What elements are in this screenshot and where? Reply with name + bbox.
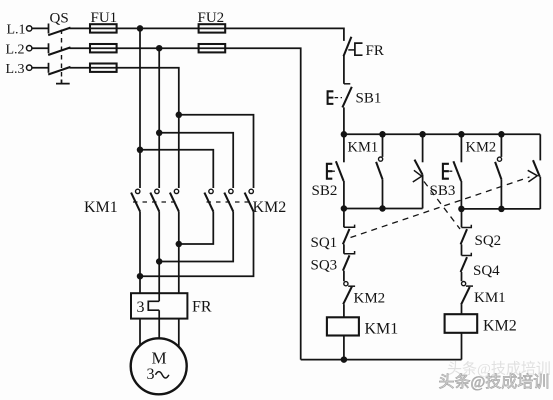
svg-text:KM1: KM1 [474, 290, 506, 306]
thermal contact FR tick [348, 49, 355, 51]
node cross dot B [156, 258, 163, 265]
linkage dashed SQ1 to NO [351, 177, 530, 238]
wire KM1 out C [178, 211, 180, 293]
wire KM1 out B [158, 211, 160, 293]
wire L2 QS to left return [70, 48, 301, 359]
interlock KM1 NC circle [462, 282, 466, 286]
aux contact KM1 circle [379, 157, 383, 161]
wire L3 to QS [32, 67, 49, 69]
start button SB3 link dash [449, 170, 453, 172]
motor M circle [131, 338, 187, 394]
switch QS pole 3 blade [48, 67, 70, 75]
switch QS pole 3 fixed tick [48, 63, 50, 73]
motor phase tilde [156, 372, 169, 378]
svg-text:3: 3 [147, 366, 155, 383]
wire SQ1-NO to lower bus [539, 177, 541, 209]
svg-text:L.3: L.3 [6, 62, 25, 77]
svg-text:KM1: KM1 [365, 321, 399, 338]
limit contact SQ1-NO upper wire [539, 134, 541, 160]
node branch B dot [156, 130, 163, 137]
start button SB2 actuator E [327, 164, 332, 179]
svg-text:M: M [152, 349, 167, 368]
wire L1 to QS [32, 27, 49, 29]
wire phase A vertical [139, 28, 141, 188]
wire KM2 coil to bottom bus [461, 333, 463, 360]
terminal L2 [27, 46, 32, 51]
wire phase B vertical [158, 48, 160, 188]
linkage arrow at SQ1-NO [528, 170, 538, 182]
contactor KM2 main contact 2 [224, 189, 233, 211]
wire branch B to KM2 [159, 133, 233, 188]
fuse FU1 pole 3 [90, 64, 117, 72]
interlock KM2 NC circle [344, 282, 348, 286]
svg-text:头条@技成培训: 头条@技成培训 [439, 373, 550, 391]
start button SB3 actuator E [443, 164, 449, 179]
wire SB1 to bus [343, 107, 345, 134]
switch QS linkage handle [56, 80, 70, 84]
svg-text:FR: FR [366, 43, 384, 59]
limit switch SQ3 tick [344, 251, 355, 254]
node branch A dot [137, 147, 144, 154]
wire KM1 out A [139, 211, 141, 293]
limit switch SQ4 blade [461, 257, 467, 272]
svg-text:SQ3: SQ3 [311, 258, 338, 274]
interlock KM2 NC blade [343, 287, 352, 305]
svg-text:SB1: SB1 [356, 91, 382, 107]
terminal L1 [27, 26, 32, 31]
stop button SB1 link dash [335, 97, 342, 99]
wire KM2 out 2 cross [159, 211, 233, 261]
node lower-left dot 2 [379, 205, 386, 212]
fuse FU1 pole 1 [90, 24, 117, 32]
thermal relay FR heater element [148, 293, 159, 318]
stop button SB1 tick [344, 83, 350, 85]
svg-text:SB2: SB2 [312, 183, 338, 199]
wire SQ4 to KM1 NC [461, 272, 463, 281]
switch QS linkage dashed [61, 30, 63, 81]
svg-text:3: 3 [137, 299, 145, 316]
interlock KM2 NC tick [348, 285, 355, 287]
svg-text:SQ1: SQ1 [311, 235, 338, 251]
fuse FU2 pole 2 [199, 44, 226, 52]
node junction L2 dot [156, 45, 163, 52]
contactor KM2 main contact 3 [245, 189, 254, 211]
wire FR to motor 3 [178, 319, 180, 347]
limit contact SQ2-NO upper wire [422, 134, 424, 162]
start button SB2 link dash [332, 170, 335, 172]
wire FR contact to SB1 [343, 56, 345, 84]
contactor KM1 main contact 1 [131, 189, 140, 211]
wire lower-left bus [344, 208, 423, 210]
wire SQ3 to KM2 NC [343, 271, 345, 282]
start button SB2 upper wire [343, 134, 345, 162]
svg-text:SQ4: SQ4 [473, 263, 500, 279]
coil KM2 box [445, 314, 478, 333]
stop button SB1 actuator E [328, 91, 334, 104]
start button SB3 blade [453, 161, 461, 181]
limit contact SQ1-NO blade [533, 160, 540, 177]
aux contact KM1 upper wire [382, 134, 384, 157]
node bus dot 2 [379, 131, 386, 138]
wire KM1 NC to coil [461, 305, 463, 315]
aux contact KM2 blade [495, 162, 501, 179]
svg-text:KM1: KM1 [84, 199, 118, 216]
aux contact KM1 blade [376, 162, 382, 179]
switch QS pole 1 fixed tick [48, 24, 50, 34]
thermal contact FR blade [344, 37, 352, 57]
svg-text:SQ2: SQ2 [475, 233, 502, 249]
aux contact KM2 circle [497, 157, 501, 161]
svg-text:SB3: SB3 [430, 183, 456, 199]
wire KM1 aux to lower bus [382, 179, 384, 208]
wire control top bus [344, 133, 540, 135]
linkage dashed SQ2 to NO [424, 182, 460, 230]
terminal L3 [27, 65, 32, 70]
wire lower-right bus [461, 208, 540, 210]
wire FR to motor 2 [158, 319, 160, 339]
node lower-right dot 1 [458, 206, 465, 213]
wire KM2 out 3 cross [140, 211, 254, 276]
stop button SB1 blade [342, 87, 351, 108]
limit switch SQ1 tick [344, 225, 355, 228]
limit switch SQ3 blade [343, 255, 350, 270]
contactor KM2 main contact 1 [204, 189, 213, 211]
fuse FU2 pole 1 [199, 24, 226, 32]
interlock KM1 NC blade [461, 287, 470, 305]
start button SB3 upper wire [460, 134, 462, 162]
svg-text:FR: FR [192, 299, 212, 316]
svg-text:KM2: KM2 [354, 291, 386, 307]
wire KM2 NC to coil [343, 304, 345, 317]
node bus dot 4 [458, 131, 465, 138]
node junction L1 dot [137, 25, 144, 32]
interlock KM1 NC tick [466, 285, 473, 287]
node cross dot A [137, 273, 144, 280]
node bus dot 1 [341, 131, 348, 138]
switch QS pole 2 fixed tick [48, 43, 50, 53]
wire KM1 coil to bottom bus [343, 336, 345, 360]
coil KM1 box [327, 317, 359, 335]
wire SQ2-NO to lower bus [422, 175, 424, 209]
svg-text:KM1: KM1 [348, 139, 379, 155]
wire branch A to KM2 [140, 150, 213, 188]
limit switch SQ1 blade [343, 229, 350, 244]
wire SB3 to lower bus [460, 181, 462, 209]
node bus dot 5 [498, 131, 505, 138]
node lower-right dot 2 [498, 206, 505, 213]
wire KM2 out 1 cross [179, 211, 214, 244]
limit contact SQ2-NO blade [415, 160, 423, 175]
switch QS pole 2 blade [48, 47, 70, 55]
contactor KM1 main contact 2 [150, 189, 159, 211]
wire KM2 aux to lower bus [500, 179, 502, 209]
wire bottom bus [301, 359, 462, 361]
node branch C dot [176, 112, 183, 119]
wire L3 QS to phase C vertical [70, 68, 179, 188]
limit switch SQ1 upper wire [343, 209, 345, 228]
limit switch SQ2 upper wire [461, 209, 463, 228]
wire L1 QS to control corner [70, 28, 344, 41]
svg-text:KM2: KM2 [483, 318, 517, 335]
fuse FU1 pole 2 [90, 44, 117, 52]
thermal relay FR box [131, 293, 187, 318]
node bus dot 3 [419, 131, 426, 138]
limit switch SQ2 tick [462, 225, 472, 228]
node lower-left dot 1 [341, 205, 348, 212]
thermal contact FR heater bracket [355, 43, 363, 55]
limit contact SQ2-NO arrow [413, 170, 422, 182]
contactor KM1 main contact 3 [170, 189, 179, 211]
limit switch SQ4 tick [462, 253, 472, 256]
limit switch SQ2 blade [461, 229, 467, 244]
switch QS pole 1 blade [48, 28, 70, 36]
contactor KM1 linkage dashed [133, 201, 180, 203]
aux contact KM2 upper wire [500, 134, 502, 157]
wire FR to motor 1 [139, 319, 141, 346]
svg-text:L.2: L.2 [6, 42, 25, 57]
contactor KM2 linkage dashed [207, 201, 255, 203]
node bottom dot [341, 356, 348, 363]
svg-text:QS: QS [50, 10, 69, 26]
wire L2 to QS [32, 47, 49, 49]
wire SQ2 to SQ4 [461, 244, 463, 255]
wire branch C to KM2 [179, 115, 254, 188]
wire SB2 to lower bus [343, 181, 345, 209]
start button SB2 blade [336, 161, 344, 181]
svg-text:KM2: KM2 [253, 199, 287, 216]
svg-text:KM2: KM2 [466, 140, 497, 156]
wire SQ1 to SQ3 [343, 244, 345, 253]
node cross dot C [176, 241, 183, 248]
svg-text:L.1: L.1 [7, 23, 26, 38]
